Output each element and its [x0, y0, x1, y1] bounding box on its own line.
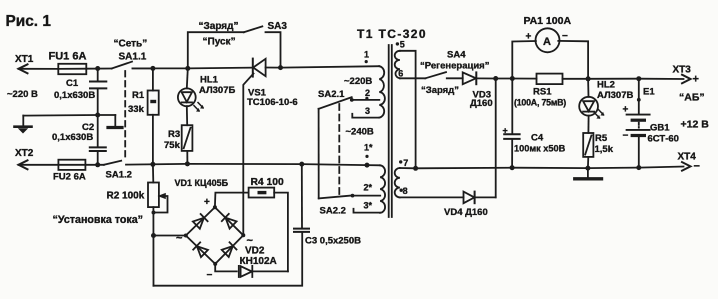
svg-text:+: +	[204, 197, 210, 208]
svg-text:1,5k: 1,5k	[595, 144, 614, 155]
svg-text:33k: 33k	[128, 104, 145, 115]
node C1-C2 mid	[95, 113, 100, 118]
node C2 bottom	[95, 162, 100, 167]
svg-text:ХТ3: ХТ3	[673, 64, 692, 75]
LED HL1	[187, 68, 188, 88]
LED HL2	[587, 79, 589, 97]
svg-text:АЛ307Б: АЛ307Б	[199, 85, 235, 96]
wire FU2 to SA1.2	[85, 164, 104, 166]
terminal XT1	[19, 64, 28, 73]
bridge rectifier VD1 frame	[186, 207, 244, 264]
svg-text:“Пуск”: “Пуск”	[203, 36, 236, 47]
wire tap 2*	[353, 195, 381, 197]
svg-text:Рис. 1: Рис. 1	[6, 13, 52, 30]
bridge diode bottom-right	[222, 242, 237, 257]
svg-text:“Установка тока”: “Установка тока”	[53, 214, 144, 226]
svg-text:SA3: SA3	[268, 21, 288, 32]
wire tap 3*	[354, 209, 381, 213]
svg-text:HL1: HL1	[200, 75, 219, 86]
svg-text:6СТ-60: 6СТ-60	[648, 134, 679, 145]
svg-text:3: 3	[365, 106, 370, 116]
svg-text:+: +	[526, 32, 532, 43]
T1 core	[388, 45, 390, 217]
diode VD3	[463, 72, 476, 84]
wire bridge minus stub	[215, 264, 237, 272]
wire XT1 to FU1	[19, 68, 59, 70]
wire tap 2	[352, 99, 380, 101]
HL1 emission arrows	[194, 103, 204, 112]
resistor R3	[182, 125, 193, 151]
wire bridge plus to R4	[215, 193, 249, 208]
node R1 top	[150, 66, 155, 71]
svg-text:6: 6	[398, 68, 403, 78]
T1 primary lower winding	[380, 165, 385, 213]
svg-text:R4 100: R4 100	[251, 177, 284, 188]
svg-text:−: −	[623, 131, 629, 142]
switch SA2.2	[319, 196, 352, 199]
svg-text:SA2.1: SA2.1	[318, 89, 345, 100]
wire SA2 common vertical	[318, 109, 320, 199]
wire XT2 to FU2	[19, 164, 59, 166]
tap 5 wire and label	[400, 51, 416, 169]
svg-text:R3: R3	[168, 129, 180, 140]
svg-text:FU1 6А: FU1 6А	[49, 50, 87, 62]
svg-text:+: +	[503, 126, 508, 136]
svg-text:(100А, 75мВ): (100А, 75мВ)	[514, 98, 566, 108]
svg-text:АЛ307В: АЛ307В	[597, 90, 633, 101]
svg-text:GB1: GB1	[650, 123, 670, 134]
node HL1 top	[185, 66, 190, 71]
svg-text:RS1: RS1	[533, 87, 552, 98]
resistor R5	[583, 133, 593, 157]
node C3 top	[299, 162, 304, 167]
wire R2 to bridge left	[154, 235, 186, 237]
VS1 gate wire	[243, 74, 253, 236]
svg-text:ХТ2: ХТ2	[15, 148, 34, 159]
svg-text:+: +	[693, 74, 699, 86]
capacitor C1	[97, 69, 99, 81]
svg-text:2*: 2*	[364, 183, 373, 193]
svg-text:1*: 1*	[364, 143, 373, 153]
node R5 bottom	[585, 166, 590, 171]
svg-text:КН102А: КН102А	[240, 256, 277, 267]
svg-text:Е1: Е1	[643, 87, 655, 98]
HL2 emission arrows	[594, 110, 604, 119]
svg-text:“Заряд”: “Заряд”	[199, 21, 239, 32]
shunt RS1	[537, 74, 563, 85]
T1 secondary lower winding	[395, 168, 400, 197]
dashed link SA2	[338, 104, 340, 195]
svg-text:1: 1	[364, 50, 369, 60]
wire FU1 to node	[86, 68, 111, 70]
resistor R4	[249, 188, 275, 198]
terminal XT3	[682, 75, 691, 84]
diode VD2 dinistor	[238, 266, 240, 277]
svg-text:“АБ”: “АБ”	[679, 91, 705, 103]
bridge diode top-right	[222, 214, 237, 229]
svg-text:~240В: ~240В	[346, 127, 374, 138]
ammeter PA1	[512, 41, 536, 79]
svg-text:~220 В: ~220 В	[7, 89, 38, 100]
ground left chassis	[22, 116, 24, 126]
svg-text:А: А	[543, 36, 551, 48]
svg-text:“Заряд”: “Заряд”	[421, 85, 459, 96]
svg-text:HL2: HL2	[597, 80, 615, 91]
svg-text:“Сеть”: “Сеть”	[114, 39, 148, 50]
svg-text:7: 7	[403, 158, 408, 168]
resistor R2 variable	[152, 164, 154, 182]
dashed link SA1	[124, 71, 126, 159]
svg-text:75k: 75k	[164, 140, 181, 151]
svg-text:“Регенерация”: “Регенерация”	[420, 61, 490, 72]
svg-text:С1: С1	[66, 78, 79, 89]
switch SA3 branch	[188, 32, 244, 68]
svg-text:R1: R1	[132, 90, 145, 101]
T1 secondary upper winding	[395, 51, 400, 79]
switch SA1.2	[104, 161, 121, 165]
terminal XT2	[19, 160, 28, 169]
tap 6 wire and label	[400, 77, 425, 79]
capacitor C2	[97, 115, 99, 147]
bridge diode bottom-left	[193, 242, 208, 257]
terminal XT4	[682, 162, 691, 171]
svg-text:VD4 Д160: VD4 Д160	[444, 207, 488, 218]
svg-text:SA4: SA4	[447, 50, 466, 61]
svg-text:Д160: Д160	[470, 98, 493, 109]
tap 8 wire	[400, 196, 464, 198]
ground chassis bar right of divider	[114, 115, 116, 126]
node R1 bottom	[150, 162, 155, 167]
tap 7 wire, negative bus	[400, 167, 684, 169]
wire R4 right down	[274, 193, 288, 272]
svg-text:Т1 ТС-320: Т1 ТС-320	[357, 27, 427, 41]
svg-text:0,1х630В: 0,1х630В	[52, 132, 93, 143]
switch SA4	[425, 72, 446, 78]
svg-text:ТС106-10-6: ТС106-10-6	[247, 97, 298, 108]
svg-text:SA1.1: SA1.1	[119, 52, 147, 63]
capacitor C3	[294, 228, 309, 230]
switch SA2.1	[319, 97, 352, 109]
diode VD4	[464, 192, 475, 204]
fuse FU2	[58, 160, 85, 170]
svg-text:0,1х630В: 0,1х630В	[54, 90, 95, 101]
node R3 bottom	[185, 161, 190, 166]
svg-text:5: 5	[400, 40, 405, 50]
svg-text:FU2 6А: FU2 6А	[53, 172, 86, 183]
svg-text:VD1 КЦ405Б: VD1 КЦ405Б	[175, 178, 229, 188]
svg-text:~220В: ~220В	[344, 76, 372, 87]
svg-text:8: 8	[403, 186, 408, 196]
svg-text:С3 0,5х250В: С3 0,5х250В	[305, 236, 361, 247]
resistor R1	[152, 68, 154, 90]
wire bottom return	[154, 233, 303, 286]
wire tap 3	[352, 114, 379, 118]
node tap 1*	[365, 163, 370, 168]
wire plus rail	[476, 77, 536, 79]
svg-text:3*: 3*	[364, 201, 373, 211]
switch SA1.1	[112, 62, 132, 69]
wire VD4 branch vertical	[495, 79, 497, 198]
svg-text:SA2.2: SA2.2	[320, 206, 346, 217]
svg-text:R5: R5	[595, 133, 608, 144]
node C1 top	[95, 66, 100, 71]
battery E1 GB1	[638, 79, 640, 114]
bridge diode top-left	[193, 214, 208, 229]
wire main top bus	[133, 67, 253, 70]
svg-text:+12 В: +12 В	[681, 119, 710, 131]
ground chassis right	[587, 168, 589, 177]
svg-text:−: −	[562, 31, 568, 42]
svg-text:ХТ1: ХТ1	[15, 54, 34, 65]
wire C-divider mid	[23, 114, 115, 117]
svg-text:~: ~	[176, 233, 183, 245]
svg-text:2: 2	[365, 88, 370, 98]
svg-text:−: −	[207, 270, 213, 281]
wire bottom mains bus to tap 1*	[126, 164, 380, 165]
svg-text:R2 100k: R2 100k	[107, 190, 145, 201]
capacitor C4	[511, 79, 513, 134]
svg-text:−: −	[694, 161, 700, 173]
fuse FU1	[58, 64, 86, 74]
T1 primary upper winding	[379, 66, 385, 117]
svg-text:РА1 100А: РА1 100А	[524, 15, 572, 27]
svg-text:SA1.2: SA1.2	[106, 169, 132, 180]
svg-text:С4: С4	[531, 133, 544, 144]
thyristor VS1	[252, 59, 254, 77]
svg-text:VD2: VD2	[245, 246, 265, 257]
svg-text:100мк х50В: 100мк х50В	[514, 144, 566, 154]
